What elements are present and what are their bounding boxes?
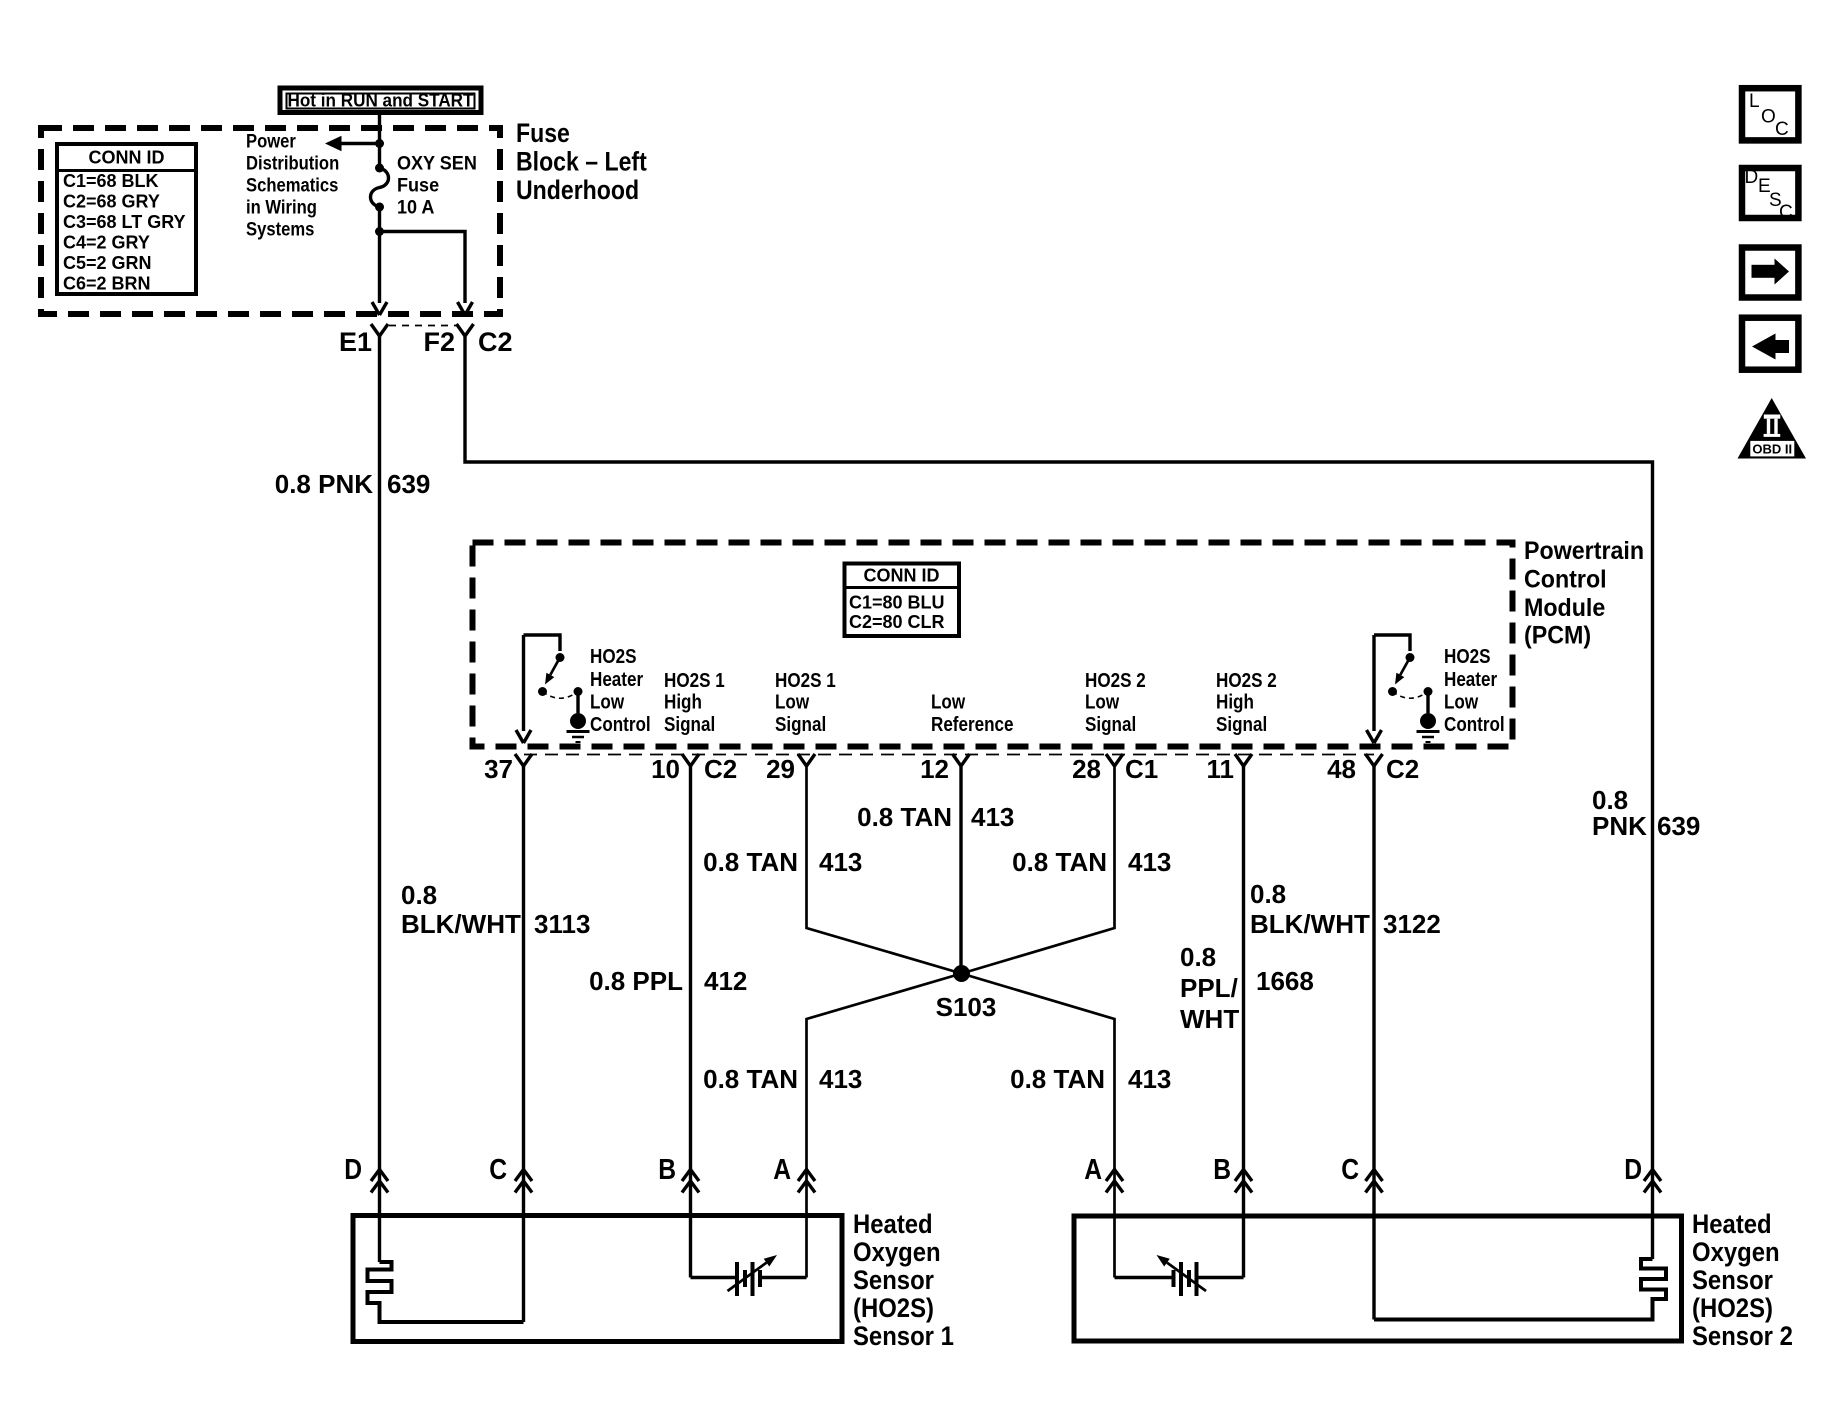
svg-text:HO2S: HO2S <box>590 645 636 668</box>
label HO2S 2 Low Signal <box>1085 669 1146 736</box>
svg-text:Schematics: Schematics <box>246 174 338 195</box>
terminal B chevrons (sensor 1) <box>682 1170 699 1182</box>
svg-text:B: B <box>1213 1153 1231 1185</box>
svg-text:0.8: 0.8 <box>401 880 437 910</box>
connector pin 48 (Y symbol) <box>1366 754 1375 766</box>
PCM dashed boundary box <box>473 543 1513 747</box>
label HO2S Heater Low Control (left) <box>590 645 651 736</box>
svg-text:Reference: Reference <box>931 713 1014 736</box>
ground (left heater driver) <box>567 692 590 743</box>
fuse OXY SEN 10 A <box>371 164 389 212</box>
svg-text:WHT: WHT <box>1180 1004 1239 1034</box>
label Powertrain Control Module (PCM) <box>1524 537 1644 649</box>
svg-text:Fuse: Fuse <box>516 118 570 148</box>
wire pin 37 inside PCM with arrow <box>522 635 525 731</box>
wire 1668 PPL/WHT : pin 11 to sensor 2 terminal B <box>1242 766 1245 1278</box>
svg-text:C2: C2 <box>478 327 513 357</box>
svg-text:HO2S 1: HO2S 1 <box>775 669 836 692</box>
icon arrow left box <box>1742 318 1798 370</box>
label HO2S 1 Low Signal <box>775 669 836 736</box>
svg-text:413: 413 <box>819 1064 862 1094</box>
svg-text:C2: C2 <box>704 754 737 784</box>
svg-text:O: O <box>1761 107 1776 128</box>
svg-text:C3=68 LT GRY: C3=68 LT GRY <box>63 212 186 232</box>
wire 413 TAN : S103 down to sensor 1 terminal A <box>807 974 962 1278</box>
svg-text:C4=2 GRY: C4=2 GRY <box>63 233 150 253</box>
svg-text:PPL/: PPL/ <box>1180 973 1238 1003</box>
svg-text:Hot in RUN and START: Hot in RUN and START <box>288 91 474 111</box>
wire 639 PNK : E1 down to HO2S sensor 1 terminal D <box>378 336 381 1262</box>
svg-text:Oxygen: Oxygen <box>853 1238 941 1268</box>
svg-text:Fuse: Fuse <box>397 174 439 196</box>
svg-text:Signal: Signal <box>775 713 826 736</box>
svg-text:3113: 3113 <box>534 909 590 939</box>
svg-text:Block – Left: Block – Left <box>516 147 647 177</box>
svg-text:PNK: PNK <box>1592 811 1647 841</box>
svg-text:HO2S 2: HO2S 2 <box>1085 669 1146 692</box>
svg-text:S103: S103 <box>936 992 997 1022</box>
svg-text:C5=2 GRN: C5=2 GRN <box>63 253 152 273</box>
svg-text:28: 28 <box>1072 754 1101 784</box>
svg-text:639: 639 <box>387 469 430 499</box>
wire pin 48 inside PCM with arrow <box>1372 635 1375 731</box>
svg-text:C2=68 GRY: C2=68 GRY <box>63 192 160 212</box>
svg-text:1668: 1668 <box>1256 966 1314 996</box>
label HO2S Heater Low Control (right) <box>1444 645 1505 736</box>
svg-text:Underhood: Underhood <box>516 175 639 205</box>
wire 412 PPL : pin 10 to sensor 1 terminal B <box>689 766 692 1278</box>
terminal A chevrons (sensor 2) <box>1106 1170 1123 1182</box>
connector pin 29 (Y symbol) <box>798 754 807 766</box>
PCM connector row dashed line <box>524 754 1374 756</box>
svg-text:A: A <box>773 1153 791 1185</box>
svg-text:F2: F2 <box>423 327 455 357</box>
svg-text:C: C <box>1341 1153 1359 1185</box>
svg-text:D: D <box>344 1153 362 1185</box>
terminal C chevrons (sensor 1) <box>515 1170 532 1182</box>
connector pin 11 (Y symbol) <box>1235 754 1244 766</box>
svg-text:Module: Module <box>1524 594 1605 622</box>
svg-text:37: 37 <box>484 754 513 784</box>
terminal B chevrons (sensor 2) <box>1235 1170 1252 1182</box>
svg-text:BLK/WHT: BLK/WHT <box>401 909 521 939</box>
svg-text:Control: Control <box>1524 566 1607 594</box>
label 0.8 PNK (right) <box>1592 785 1647 841</box>
svg-text:C2: C2 <box>1386 754 1419 784</box>
label HO2S 2 High Signal <box>1216 669 1277 736</box>
svg-text:Sensor: Sensor <box>1692 1266 1773 1296</box>
switch: HO2S heater low control driver (left) <box>524 635 583 698</box>
svg-text:(PCM): (PCM) <box>1524 622 1591 650</box>
wire 3122 BLK/WHT : pin 48 to sensor 2 terminal C <box>1372 766 1375 1320</box>
svg-text:HO2S: HO2S <box>1444 645 1490 668</box>
connector pin 10 (Y symbol) <box>682 754 691 766</box>
label Low Reference <box>931 690 1014 735</box>
splice S103 <box>953 965 970 982</box>
svg-text:639: 639 <box>1657 811 1700 841</box>
svg-text:Power: Power <box>246 130 296 151</box>
svg-text:HO2S 2: HO2S 2 <box>1216 669 1277 692</box>
label 0.8 PPL/WHT <box>1180 942 1239 1034</box>
svg-text:CONN ID: CONN ID <box>89 148 165 168</box>
wire 413 TAN : S103 down to sensor 2 terminal A <box>962 974 1115 1278</box>
fuse block dashed boundary box <box>41 128 500 314</box>
label Heated Oxygen Sensor (HO2S) Sensor 1 <box>853 1210 954 1352</box>
connector pin 28 (Y symbol) <box>1106 754 1115 766</box>
svg-text:0.8 PNK: 0.8 PNK <box>275 469 373 499</box>
heated oxygen sensor 1 box <box>353 1216 842 1342</box>
label 0.8 BLK/WHT (right) <box>1250 879 1370 939</box>
icon OBD II triangle <box>1738 398 1807 459</box>
svg-text:413: 413 <box>1128 1064 1171 1094</box>
switch: HO2S heater low control driver (right) <box>1374 635 1433 698</box>
label Heated Oxygen Sensor (HO2S) Sensor 2 <box>1692 1210 1793 1352</box>
heater element (sensor 1) <box>368 1262 524 1322</box>
svg-text:412: 412 <box>704 966 747 996</box>
heater element (sensor 2) <box>1374 1259 1666 1320</box>
svg-text:0.8: 0.8 <box>1180 942 1216 972</box>
svg-text:413: 413 <box>1128 847 1171 877</box>
svg-text:0.8 TAN: 0.8 TAN <box>857 802 952 832</box>
svg-text:Signal: Signal <box>664 713 715 736</box>
connector pin 12 (Y symbol) <box>953 754 962 766</box>
svg-text:B: B <box>658 1153 676 1185</box>
svg-text:Signal: Signal <box>1216 713 1267 736</box>
wire fuse output down to connector E1 <box>378 207 381 303</box>
svg-text:Sensor: Sensor <box>853 1266 934 1296</box>
svg-text:C6=2 BRN: C6=2 BRN <box>63 274 151 294</box>
svg-text:Low: Low <box>1085 690 1120 713</box>
svg-text:D: D <box>1745 167 1759 188</box>
svg-text:E1: E1 <box>339 327 372 357</box>
svg-text:0.8 TAN: 0.8 TAN <box>703 1064 798 1094</box>
svg-text:C2=80 CLR: C2=80 CLR <box>849 612 945 632</box>
wire 413 TAN : pin 12 to splice S103 <box>959 766 962 974</box>
icon arrow right box <box>1742 248 1798 298</box>
label HO2S 1 High Signal <box>664 669 725 736</box>
icon LOC box <box>1742 88 1798 140</box>
terminal A chevrons (sensor 1) <box>798 1170 815 1182</box>
connector pin E1 (Y symbol) <box>371 324 380 336</box>
wire from Hot in RUN feed down to fuse <box>378 113 381 168</box>
svg-text:CONN ID: CONN ID <box>864 566 940 586</box>
svg-text:0.8 TAN: 0.8 TAN <box>703 847 798 877</box>
svg-text:C1=68 BLK: C1=68 BLK <box>63 171 159 191</box>
svg-text:0.8 TAN: 0.8 TAN <box>1012 847 1107 877</box>
svg-text:Heater: Heater <box>590 668 643 691</box>
connector pin F2/C2 (Y symbol) <box>457 324 466 336</box>
variable arrow (sensor 2 cell) <box>1157 1255 1207 1291</box>
wire 639 PNK : C2 across and down to HO2S sensor 2 terminal D <box>465 336 1653 1259</box>
svg-text:Heater: Heater <box>1444 668 1497 691</box>
svg-text:29: 29 <box>766 754 795 784</box>
svg-text:Low: Low <box>931 690 966 713</box>
svg-text:C1: C1 <box>1125 754 1158 784</box>
svg-text:0.8 TAN: 0.8 TAN <box>1010 1064 1105 1094</box>
connector pin 37 (Y symbol) <box>515 754 524 766</box>
svg-text:Low: Low <box>1444 690 1479 713</box>
svg-text:C: C <box>489 1153 507 1185</box>
variable arrow (sensor 1 cell) <box>728 1255 778 1291</box>
terminal D chevrons (sensor 2) <box>1644 1170 1661 1182</box>
svg-text:C1=80 BLU: C1=80 BLU <box>849 593 945 613</box>
connector table CONN ID (fuse block) <box>57 144 196 294</box>
svg-text:12: 12 <box>920 754 949 784</box>
svg-text:L: L <box>1749 91 1760 112</box>
svg-text:413: 413 <box>819 847 862 877</box>
svg-text:High: High <box>664 690 702 713</box>
svg-text:D: D <box>1624 1153 1642 1185</box>
svg-text:C: C <box>1775 119 1789 140</box>
power source box "Hot in RUN and START" <box>280 88 481 113</box>
wire 413 TAN : pin 29 to splice S103 <box>807 766 962 974</box>
heated oxygen sensor 2 box <box>1074 1216 1682 1341</box>
svg-text:Control: Control <box>1444 713 1505 736</box>
label OXY SEN Fuse 10 A <box>397 152 477 218</box>
icon DESC box <box>1742 167 1798 223</box>
svg-text:OXY SEN: OXY SEN <box>397 152 477 174</box>
svg-text:10: 10 <box>651 754 680 784</box>
terminal C chevrons (sensor 2) <box>1366 1170 1383 1182</box>
svg-text:in Wiring: in Wiring <box>246 196 317 217</box>
dashed connector line E1 to F2 <box>389 325 456 327</box>
arrow to Power Distribution Schematics <box>325 136 380 151</box>
ground (right heater driver) <box>1417 692 1440 743</box>
svg-text:Heated: Heated <box>1692 1210 1772 1240</box>
arrow into fuse block connector C2 <box>458 302 466 315</box>
svg-text:11: 11 <box>1207 754 1235 784</box>
arrow into fuse block connector E1 <box>372 302 380 315</box>
svg-text:Oxygen: Oxygen <box>1692 1238 1780 1268</box>
svg-text:(HO2S): (HO2S) <box>1692 1294 1773 1324</box>
svg-text:0.8 PPL: 0.8 PPL <box>589 966 683 996</box>
svg-text:(HO2S): (HO2S) <box>853 1294 934 1324</box>
label Fuse Block - Left Underhood <box>516 118 647 205</box>
svg-text:A: A <box>1084 1153 1102 1185</box>
svg-text:Heated: Heated <box>853 1210 933 1240</box>
oxygen sense cell (sensor 1) <box>691 1262 807 1296</box>
svg-text:Control: Control <box>590 713 651 736</box>
svg-text:Systems: Systems <box>246 218 314 239</box>
svg-text:Sensor 1: Sensor 1 <box>853 1322 954 1352</box>
svg-text:C: C <box>1779 202 1793 223</box>
svg-text:0.8: 0.8 <box>1250 879 1286 909</box>
svg-text:OBD II: OBD II <box>1752 442 1792 457</box>
svg-text:Low: Low <box>590 690 625 713</box>
oxygen sense cell (sensor 2) <box>1115 1262 1244 1296</box>
connector table CONN ID (PCM) <box>845 564 960 637</box>
svg-text:Signal: Signal <box>1085 713 1136 736</box>
svg-text:Powertrain: Powertrain <box>1524 537 1644 565</box>
svg-text:Distribution: Distribution <box>246 152 339 173</box>
svg-text:Low: Low <box>775 690 810 713</box>
svg-text:High: High <box>1216 690 1254 713</box>
terminal D chevrons (sensor 1) <box>371 1170 388 1182</box>
svg-text:48: 48 <box>1327 754 1356 784</box>
svg-text:Sensor 2: Sensor 2 <box>1692 1322 1793 1352</box>
svg-text:3122: 3122 <box>1383 909 1441 939</box>
svg-text:BLK/WHT: BLK/WHT <box>1250 909 1370 939</box>
junction at fuse output branch <box>375 227 384 236</box>
wire branch over to connector C2 <box>380 232 466 304</box>
svg-text:HO2S 1: HO2S 1 <box>664 669 725 692</box>
junction node to Power Distribution arrow <box>375 139 384 148</box>
wire 3113 BLK/WHT : pin 37 to sensor 1 terminal C <box>522 766 525 1322</box>
wire 413 TAN : pin 28 to splice S103 <box>962 766 1115 974</box>
note: Power Distribution Schematics in Wiring Systems <box>246 130 339 239</box>
svg-text:413: 413 <box>971 802 1014 832</box>
label 0.8 BLK/WHT <box>401 880 521 939</box>
svg-text:10 A: 10 A <box>397 196 434 218</box>
